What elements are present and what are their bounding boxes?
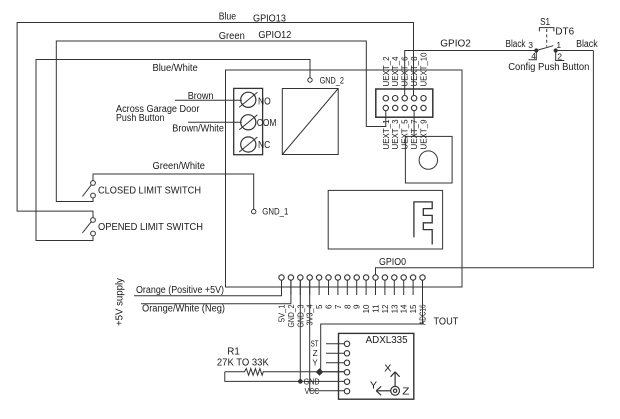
svg-text:GND_2: GND_2 [320, 76, 344, 87]
svg-text:Orange/White (Neg): Orange/White (Neg) [142, 304, 225, 315]
UEXT pins top row (2,4,6,8,10) [383, 96, 388, 101]
junction GND dot [299, 380, 303, 384]
ADXL pins (circles) [344, 341, 349, 346]
pushbutton contact pin 1 [554, 49, 557, 52]
svg-text:GND_1: GND_1 [262, 206, 288, 217]
switch OPENED lever [82, 221, 91, 233]
svg-text:5: 5 [315, 304, 324, 309]
svg-text:Config Push Button: Config Push Button [508, 62, 589, 73]
svg-text:VCC: VCC [305, 387, 320, 396]
svg-text:OPENED LIMIT SWITCH: OPENED LIMIT SWITCH [98, 222, 203, 233]
svg-text:TOUT: TOUT [434, 317, 459, 328]
wire VCC from 3V3 board pin 4 [310, 280, 345, 391]
WiFi module box [328, 190, 442, 249]
screw terminal NC [241, 137, 256, 152]
svg-text:10: 10 [362, 304, 371, 313]
wire ST pin [326, 343, 344, 345]
terminal block J1 (NO/COM/NC) [234, 88, 263, 154]
svg-text:2: 2 [557, 51, 562, 61]
svg-text:+5V supply: +5V supply [115, 278, 126, 326]
connector UEXT (2x5 header) [376, 89, 433, 117]
pushbutton contact pin 3 [535, 49, 538, 52]
UEXT pins bottom row (1,3,5,7,9) [383, 105, 388, 110]
svg-text:9: 9 [353, 304, 362, 309]
svg-text:GPIO0: GPIO0 [379, 257, 406, 268]
axis Y arrow [377, 390, 390, 392]
wire GPIO0 from pin11 to config button [376, 51, 594, 275]
svg-text:27K TO 33K: 27K TO 33K [217, 358, 269, 369]
wire Black (right) to GPIO0 [556, 50, 594, 52]
node GND_2 pin [308, 78, 312, 82]
svg-text:Blue/White: Blue/White [153, 63, 199, 74]
svg-text:Black: Black [506, 39, 527, 50]
svg-text:15: 15 [409, 304, 418, 313]
pushbutton lever [536, 46, 553, 51]
svg-text:GPIO2: GPIO2 [440, 39, 471, 50]
node GND_1 pin [252, 209, 256, 213]
svg-text:UEXT_10: UEXT_10 [420, 52, 429, 87]
resistor R1 zigzag and wire to ADXL X pin [225, 369, 344, 376]
svg-text:Orange (Positive +5V): Orange (Positive +5V) [136, 285, 224, 296]
svg-text:4: 4 [531, 51, 536, 61]
junction X node diamond [316, 368, 324, 376]
svg-text:12: 12 [381, 304, 390, 313]
svg-text:NC: NC [258, 140, 270, 151]
ADXL335 box [339, 333, 414, 399]
axis origin (Z out of plane) [391, 386, 400, 395]
svg-text:S1: S1 [540, 17, 550, 28]
svg-text:Y: Y [370, 381, 378, 392]
wire Green/White to GND_1 [93, 174, 254, 209]
axis X arrow [394, 373, 396, 387]
svg-text:Z: Z [402, 386, 409, 397]
PCB antenna meander [414, 202, 432, 245]
svg-text:GND_2: GND_2 [287, 304, 296, 327]
svg-text:NO: NO [258, 97, 271, 108]
wire TOUT from pin16 to X node [321, 280, 423, 372]
board bottom pin stubs [281, 280, 283, 295]
svg-text:UEXT_9: UEXT_9 [420, 119, 429, 150]
wire Brown/White to COM [188, 121, 242, 123]
svg-text:Black: Black [576, 39, 598, 50]
switch CLOSED lever [82, 185, 91, 197]
svg-text:Y: Y [312, 359, 318, 368]
pushbutton pin4 stub [529, 51, 537, 60]
svg-text:Blue: Blue [219, 12, 237, 23]
wire X pin from junction [323, 371, 344, 373]
svg-text:1: 1 [556, 40, 561, 50]
svg-text:GPIO13: GPIO13 [253, 14, 286, 25]
svg-text:14: 14 [400, 304, 409, 313]
svg-text:UEXT_2: UEXT_2 [382, 56, 391, 87]
wire GPIO2 from UEXT pin6 to button pin3 [405, 51, 537, 96]
svg-text:ST: ST [311, 340, 319, 349]
wire Y pin [326, 362, 344, 364]
board bottom pins 1-16 (circles) [279, 275, 284, 280]
svg-text:6: 6 [325, 304, 334, 309]
svg-text:DT6: DT6 [555, 27, 574, 38]
svg-text:Push Button: Push Button [116, 113, 165, 124]
switch OPENED limit terminals [91, 218, 96, 223]
svg-text:GND: GND [304, 378, 320, 387]
wire Z pin [326, 352, 344, 354]
wire R1 left lead down to GND rail [225, 372, 344, 382]
svg-text:7: 7 [334, 304, 343, 309]
svg-text:UEXT_3: UEXT_3 [391, 119, 400, 150]
svg-text:8: 8 [343, 304, 352, 309]
wire GND_3 drop from board pin 3 [299, 280, 301, 381]
svg-text:ADXL335: ADXL335 [366, 335, 408, 346]
wire Orange/White neg to pin2 [141, 280, 291, 304]
svg-text:UEXT_8: UEXT_8 [410, 56, 419, 87]
svg-text:CLOSED LIMIT SWITCH: CLOSED LIMIT SWITCH [98, 186, 201, 197]
svg-text:UEXT_4: UEXT_4 [391, 56, 400, 87]
svg-text:3: 3 [528, 40, 533, 50]
screw terminal COM [241, 115, 256, 130]
pushbutton dashed actuator [546, 29, 548, 47]
wire Green GPIO12 [56, 41, 386, 202]
pushbutton pin2 stub [556, 51, 565, 61]
switch CLOSED limit terminals [91, 181, 96, 186]
wire Brown to NO [175, 99, 242, 101]
svg-text:GPIO12: GPIO12 [258, 30, 291, 41]
wire Blue GPIO13 [17, 23, 413, 218]
svg-text:13: 13 [390, 304, 399, 313]
svg-text:COM: COM [257, 118, 277, 129]
svg-text:Brown: Brown [188, 91, 214, 102]
svg-text:Brown/White: Brown/White [172, 124, 224, 135]
screw terminal NO [241, 92, 256, 107]
svg-text:5V_1: 5V_1 [278, 304, 287, 322]
wire UEXT pin7 to button [413, 111, 415, 137]
svg-text:Green/White: Green/White [153, 161, 206, 172]
svg-text:Green: Green [219, 31, 245, 42]
relay K1 (box with diagonal) [282, 89, 338, 155]
main board outline (ESP8266 module board) [226, 70, 463, 287]
on-board button B1 [405, 136, 452, 183]
svg-text:11: 11 [372, 304, 381, 313]
svg-text:X: X [384, 364, 392, 375]
wire Blue/White to GND_2 [36, 60, 310, 241]
svg-text:Z: Z [313, 349, 318, 358]
svg-text:R1: R1 [227, 347, 240, 358]
wire Orange positive to pin1 [134, 280, 282, 296]
pushbutton plunger cap [539, 28, 554, 32]
